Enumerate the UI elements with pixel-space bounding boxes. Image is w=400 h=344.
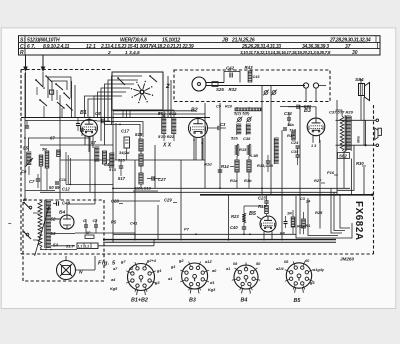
- resistor R1a: [235, 160, 239, 172]
- rotary wafer switch S: [140, 90, 144, 94]
- wire bus top3: [113, 110, 196, 112]
- svg-text:C:: C:: [20, 44, 26, 50]
- coil 519: [162, 117, 167, 119]
- svg-text:JB: JB: [222, 37, 229, 43]
- svg-text:G: G: [83, 219, 86, 223]
- switch contact S5b: [46, 76, 52, 82]
- variable capacitor C45: [272, 91, 276, 95]
- svg-text:51.7: 51.7: [66, 244, 75, 249]
- svg-text:5'20 R22: 5'20 R22: [158, 134, 175, 139]
- svg-text:R30: R30: [356, 161, 364, 166]
- wire v13: [89, 136, 91, 192]
- fuse block L1 L2: [77, 243, 98, 249]
- svg-text:C48: C48: [62, 201, 71, 206]
- wire heater h1: [54, 218, 60, 220]
- switch contact S5: [64, 93, 70, 99]
- svg-text:1 3: 1 3: [311, 144, 317, 148]
- svg-text:C35: C35: [291, 149, 299, 154]
- svg-text:14a: 14a: [287, 122, 294, 127]
- svg-text:R13,C39: R13,C39: [257, 163, 274, 168]
- svg-text:54: 54: [53, 243, 58, 248]
- wire v12: [336, 100, 338, 194]
- wire v2: [59, 95, 61, 200]
- trimmer C32: [238, 118, 242, 122]
- wire v75: [74, 85, 76, 118]
- switch contact S1: [36, 80, 43, 87]
- power transformer secondary: [46, 199, 51, 201]
- wire loop right: [338, 223, 352, 238]
- svg-text:Kg3: Kg3: [208, 287, 216, 292]
- wire HT bus 2: [40, 191, 337, 193]
- svg-text:3,10,11,7,5,12,13,14,15,16,17,: 3,10,11,7,5,12,13,14,15,16,17,18,19,20,2…: [240, 50, 331, 55]
- svg-text:g7: g7: [120, 259, 126, 264]
- variable capacitor C44: [264, 91, 268, 95]
- svg-text:X X: X X: [162, 143, 172, 149]
- wire v14: [94, 160, 96, 204]
- terminal circle 2: [376, 144, 379, 147]
- fuse wires: [98, 245, 154, 247]
- svg-text:a1: a1: [168, 276, 172, 281]
- switch contact S5c: [66, 104, 72, 110]
- tube B5 pins: [263, 232, 265, 240]
- trimmer square: [50, 90, 54, 94]
- transformer bottom wire: [40, 249, 77, 251]
- svg-text:~: ~: [8, 222, 12, 228]
- tube B1: [81, 120, 98, 137]
- svg-text:R10: R10: [225, 105, 233, 109]
- voltage selector arrow: [35, 206, 50, 256]
- resistor R16: [247, 144, 250, 156]
- svg-text:5'21: 5'21: [169, 111, 177, 116]
- svg-text:B5: B5: [249, 211, 257, 217]
- coil 523 horizontal: [235, 108, 261, 111]
- wire bottom bus thick: [103, 239, 336, 241]
- switch contact S6: [118, 78, 125, 85]
- svg-text:P7: P7: [184, 227, 190, 232]
- wire mid 190: [337, 146, 354, 191]
- svg-text:a1: a1: [226, 266, 230, 271]
- svg-text:55: 55: [23, 146, 29, 151]
- if2 wires: [163, 134, 165, 141]
- svg-text:B1+B2: B1+B2: [131, 298, 148, 304]
- svg-text:C27: C27: [158, 177, 166, 182]
- output transformer primary: [340, 116, 344, 151]
- svg-text:R1d: R1d: [204, 162, 212, 167]
- svg-text:a2/4: a2/4: [276, 266, 284, 271]
- nested wire bundle L4: [112, 76, 143, 125]
- svg-text:C38: C38: [243, 136, 251, 141]
- parts-list table frame: [19, 36, 381, 55]
- wire v3: [112, 110, 114, 242]
- svg-text:C17: C17: [121, 129, 130, 134]
- tube B1 top cap wire: [88, 118, 90, 120]
- svg-text:6 7.: 6 7.: [27, 44, 35, 50]
- svg-text:WER(7)0,6,8: WER(7)0,6,8: [120, 37, 147, 43]
- nested wire bundle L0b: [98, 92, 127, 118]
- svg-text:g2: g2: [178, 258, 184, 263]
- svg-text:g1: g1: [170, 264, 176, 269]
- svg-text:S26: S26: [216, 87, 224, 92]
- svg-text:1P: 1P: [86, 231, 91, 235]
- svg-text:B2: B2: [191, 108, 198, 114]
- svg-text:R23: R23: [231, 214, 239, 219]
- svg-text:g1: g1: [156, 268, 162, 273]
- svg-text:5123)(6M,10TH: 5123)(6M,10TH: [27, 37, 60, 43]
- coil 521: [172, 117, 177, 119]
- nested wire bundle LA: [85, 96, 113, 118]
- svg-text:Mia: Mia: [356, 136, 361, 143]
- svg-text:C7: C7: [29, 179, 35, 184]
- wire v20: [202, 138, 204, 160]
- capacitor C21: [80, 128, 84, 130]
- svg-text:27,28,29,30,31,32,34: 27,28,29,30,31,32,34: [329, 37, 371, 43]
- wire heater h2: [75, 232, 135, 234]
- resistor 50: [39, 155, 43, 166]
- mains switch bottom: [24, 232, 31, 239]
- wire x158: [157, 205, 159, 240]
- svg-text:67: 67: [50, 136, 55, 141]
- wire v11: [319, 140, 321, 229]
- svg-text:57: 57: [91, 140, 96, 145]
- tube B1 pins: [84, 136, 86, 145]
- wire det: [244, 205, 262, 207]
- svg-text:34(2d: 34(2d: [119, 150, 130, 155]
- resistor R18: [302, 219, 306, 228]
- tube B3: [307, 118, 325, 136]
- svg-text:FX682A: FX682A: [353, 201, 364, 241]
- parts-list ticks: [375, 36, 377, 43]
- switch contact S4: [57, 102, 64, 108]
- svg-text:C29: C29: [164, 198, 172, 203]
- wire terminal vertical: [365, 120, 367, 145]
- wire R30 down: [363, 167, 365, 195]
- speaker jack: [378, 128, 381, 135]
- resistor 5c: [139, 173, 143, 184]
- socket B3: [182, 263, 208, 289]
- resistor 58: [102, 151, 106, 164]
- coil 524: [237, 123, 242, 125]
- wire v4b: [167, 76, 169, 118]
- capacitor C27: [151, 176, 153, 181]
- if3 wires: [236, 156, 238, 160]
- wire mid h4: [135, 159, 205, 161]
- switch stub wires: [36, 87, 38, 95]
- svg-text:21,N,25,26: 21,N,25,26: [231, 37, 255, 43]
- wire v4c: [170, 80, 172, 118]
- rectifier wires: [65, 256, 67, 261]
- wire mid h5: [113, 200, 160, 202]
- wire mid-left h1: [28, 137, 90, 139]
- wire v5: [180, 160, 182, 240]
- wire bus top4: [113, 113, 205, 115]
- svg-text:B5: B5: [294, 298, 302, 304]
- tuning-gang dashed box: [174, 70, 330, 102]
- b3 wires: [297, 148, 299, 155]
- svg-text:C3: C3: [220, 122, 226, 127]
- coil 525: [246, 123, 251, 125]
- svg-text:B4: B4: [59, 210, 65, 216]
- svg-text:R14: R14: [221, 164, 229, 169]
- svg-text:g3: g3: [154, 280, 160, 285]
- wire h184: [66, 183, 113, 185]
- coil 526: [274, 137, 279, 139]
- capacitor C44b: [284, 221, 288, 223]
- wire xfmr down2: [351, 159, 353, 195]
- svg-text:d1: d1: [210, 280, 215, 285]
- mains switch top: [24, 203, 31, 210]
- resistor R21: [291, 217, 295, 227]
- switch contact S7: [150, 76, 157, 82]
- gang end bearings: [303, 83, 308, 88]
- wire loop 2: [308, 198, 338, 236]
- svg-text:B4: B4: [241, 298, 248, 304]
- svg-text:37: 37: [345, 44, 351, 50]
- svg-text:2,13,4,1,5,23 15 41 10(17)(4,1: 2,13,4,1,5,23 15 41 10(17)(4,18,2,0,21,2…: [100, 44, 194, 50]
- svg-text:Kg5: Kg5: [110, 286, 118, 291]
- resistor R1b: [247, 160, 251, 172]
- svg-text:C26,C19: C26,C19: [135, 186, 152, 191]
- resistor R15: [235, 144, 238, 156]
- svg-text:517: 517: [118, 176, 126, 181]
- svg-text:R: R: [20, 50, 24, 56]
- wire v7: [219, 103, 221, 188]
- tube B5: [260, 216, 276, 232]
- wire v6: [204, 103, 206, 188]
- svg-text:C8: C8: [95, 111, 101, 116]
- svg-text:a1Z: a1Z: [205, 259, 212, 264]
- svg-text:L1B: L1B: [251, 153, 259, 158]
- capacitor C33b: [218, 169, 223, 171]
- wire v17: [115, 123, 117, 160]
- svg-text:B3: B3: [189, 298, 196, 304]
- svg-text:10: 10: [23, 198, 27, 202]
- wire B+ thick bus: [200, 194, 373, 196]
- capacitor C31: [217, 126, 219, 131]
- svg-text:R1b: R1b: [244, 178, 252, 183]
- svg-text:515: 515: [118, 158, 125, 163]
- power transformer primary: [38, 200, 42, 248]
- svg-text:C40: C40: [230, 225, 238, 230]
- nested wire bundle LB: [88, 99, 112, 118]
- svg-text:2: 2: [165, 83, 170, 90]
- output transformer secondary: [346, 115, 351, 117]
- svg-text:518: 518: [135, 132, 143, 137]
- svg-text:R15: R15: [239, 147, 247, 152]
- resistor 58b: [45, 151, 49, 168]
- wire v18: [154, 145, 156, 188]
- coil 59: [110, 152, 115, 154]
- nested wire bundle L3: [108, 80, 138, 122]
- svg-text:50 59: 50 59: [49, 185, 60, 190]
- wire v9b: [281, 130, 283, 240]
- socket B5: [286, 263, 311, 288]
- switch contact S2: [56, 84, 63, 90]
- svg-text:C23: C23: [258, 196, 266, 201]
- terminal circle 1: [376, 119, 379, 122]
- socket B1+B2: [128, 264, 155, 291]
- wire v16: [104, 123, 106, 145]
- svg-text:C28: C28: [111, 199, 119, 204]
- svg-text:B1: B1: [80, 110, 87, 116]
- svg-text:1 3,4,5: 1 3,4,5: [125, 50, 140, 56]
- svg-text:L1: L1: [78, 245, 82, 249]
- wire mid-left h3: [60, 159, 135, 161]
- svg-text:S82: S82: [339, 154, 347, 159]
- svg-text:15,10(12: 15,10(12: [162, 37, 181, 43]
- wire B4 top: [66, 204, 68, 215]
- resistor 5d: [57, 150, 61, 157]
- wire bottom bus: [113, 233, 296, 235]
- svg-text:C6: C6: [21, 169, 27, 174]
- capacitor C10: [55, 181, 59, 183]
- power transformer core: [44, 200, 46, 248]
- transformer wires: [341, 110, 343, 116]
- wire v4: [134, 160, 136, 240]
- wire speaker top: [360, 79, 362, 84]
- capacitor C20: [266, 160, 271, 162]
- svg-text:C24: C24: [291, 140, 299, 145]
- svg-text:C34: C34: [284, 111, 292, 116]
- svg-text:R32: R32: [229, 87, 238, 92]
- wire v10: [299, 105, 301, 234]
- tube B2 pins: [193, 137, 195, 160]
- antenna terminal arrow: [25, 56, 27, 70]
- svg-text:8,9,10,2,4,11: 8,9,10,2,4,11: [43, 44, 70, 50]
- capacitor C12: [119, 165, 124, 167]
- gang wire right: [319, 85, 326, 87]
- svg-text:C12: C12: [62, 187, 70, 192]
- wire terminal 2: [336, 144, 377, 146]
- wire v8: [261, 86, 263, 195]
- svg-text:JM260: JM260: [340, 256, 354, 261]
- svg-text:5?3: 5?3: [109, 167, 117, 172]
- tube B3 top wire: [315, 107, 317, 118]
- wire speaker down: [360, 96, 362, 121]
- trimmer C33: [247, 118, 251, 122]
- earth terminal arrow: [42, 56, 44, 70]
- wire bus top: [21, 117, 210, 119]
- capacitor C42 loop: [224, 72, 240, 83]
- wire loop 1: [296, 196, 338, 238]
- nested wire bundle L1: [101, 88, 130, 122]
- switch contact S3: [40, 100, 47, 106]
- nested wire bundle L0: [94, 96, 122, 118]
- capacitor C5a: [25, 125, 29, 127]
- wire heater h3: [75, 245, 80, 247]
- capacitor C20: [76, 123, 80, 125]
- component 1P: [85, 235, 94, 238]
- svg-text:5'19: 5'19: [158, 111, 166, 116]
- switch group frame: [48, 77, 71, 98]
- svg-text:R25: R25: [315, 210, 323, 215]
- mains wires: [33, 212, 39, 214]
- svg-text:52b: 52b: [231, 136, 238, 141]
- svg-text:S:: S:: [20, 37, 25, 43]
- svg-text:g2+4: g2+4: [146, 258, 157, 263]
- coil 57: [95, 146, 100, 148]
- drive collar: [212, 82, 218, 87]
- tube B4: [60, 215, 74, 229]
- wire xfmr down1: [343, 151, 345, 188]
- socket B4: [234, 265, 258, 289]
- svg-text:S84: S84: [355, 77, 364, 83]
- wire mid-left h2: [40, 144, 113, 146]
- junction dots: [59, 117, 61, 119]
- svg-text:P16: P16: [327, 170, 335, 175]
- wire v7b: [227, 195, 229, 240]
- svg-text:C41: C41: [130, 221, 138, 226]
- svg-text:C42: C42: [226, 66, 235, 71]
- svg-text:g3: g3: [309, 280, 315, 285]
- band-switch unit box: [112, 72, 163, 110]
- antenna coil 55: [27, 151, 32, 153]
- svg-text:a1g4y: a1g4y: [313, 267, 325, 272]
- wire bus top2: [25, 120, 97, 122]
- svg-text:R27: R27: [314, 178, 322, 183]
- wire step 124: [105, 118, 141, 140]
- wire loop 3: [331, 188, 342, 233]
- svg-text:2: 2: [107, 50, 111, 56]
- wire v70: [69, 158, 71, 184]
- switch box drop wires: [122, 110, 124, 118]
- tube B2: [189, 119, 208, 138]
- wire v9: [270, 86, 272, 195]
- chassis dashed frame: [20, 70, 22, 255]
- svg-text:1R: 1R: [287, 212, 292, 216]
- tuning capacitor drive: [192, 77, 206, 91]
- wire loop 4: [334, 192, 345, 230]
- wire v71: [71, 81, 73, 118]
- wire v1b: [28, 138, 30, 151]
- svg-text:30: 30: [352, 50, 358, 56]
- svg-text:12,1: 12,1: [86, 44, 96, 50]
- wire v68: [67, 155, 69, 184]
- left cluster wires: [40, 166, 42, 190]
- wire terminal 1: [336, 119, 377, 121]
- svg-text:L2: L2: [85, 245, 89, 249]
- svg-text:C43: C43: [253, 75, 261, 79]
- svg-text:P5: P5: [111, 220, 117, 225]
- wire v15: [100, 121, 102, 141]
- nested wire bundle L2: [105, 84, 135, 122]
- wire v66: [65, 152, 67, 184]
- wire step 121: [101, 118, 143, 138]
- resistor R43: [248, 71, 252, 82]
- wire HT bus: [113, 187, 350, 189]
- wire top right: [280, 106, 309, 108]
- rectifier B6: [57, 261, 76, 280]
- resistor 5b: [139, 154, 143, 166]
- tube B3 pins: [312, 136, 314, 143]
- power supply dashed box: [23, 200, 104, 281]
- wire v19: [195, 138, 197, 160]
- wire loop 5: [340, 195, 350, 228]
- output transformer core: [344, 115, 346, 152]
- svg-text:5(2) 5(8): 5(2) 5(8): [234, 111, 250, 116]
- wire v1: [24, 73, 26, 200]
- svg-text:R43: R43: [245, 65, 254, 70]
- block wires: [126, 148, 128, 160]
- wire bottom bus 3: [103, 241, 336, 243]
- tube B2 top wire: [197, 118, 199, 119]
- switch wires: [25, 72, 27, 118]
